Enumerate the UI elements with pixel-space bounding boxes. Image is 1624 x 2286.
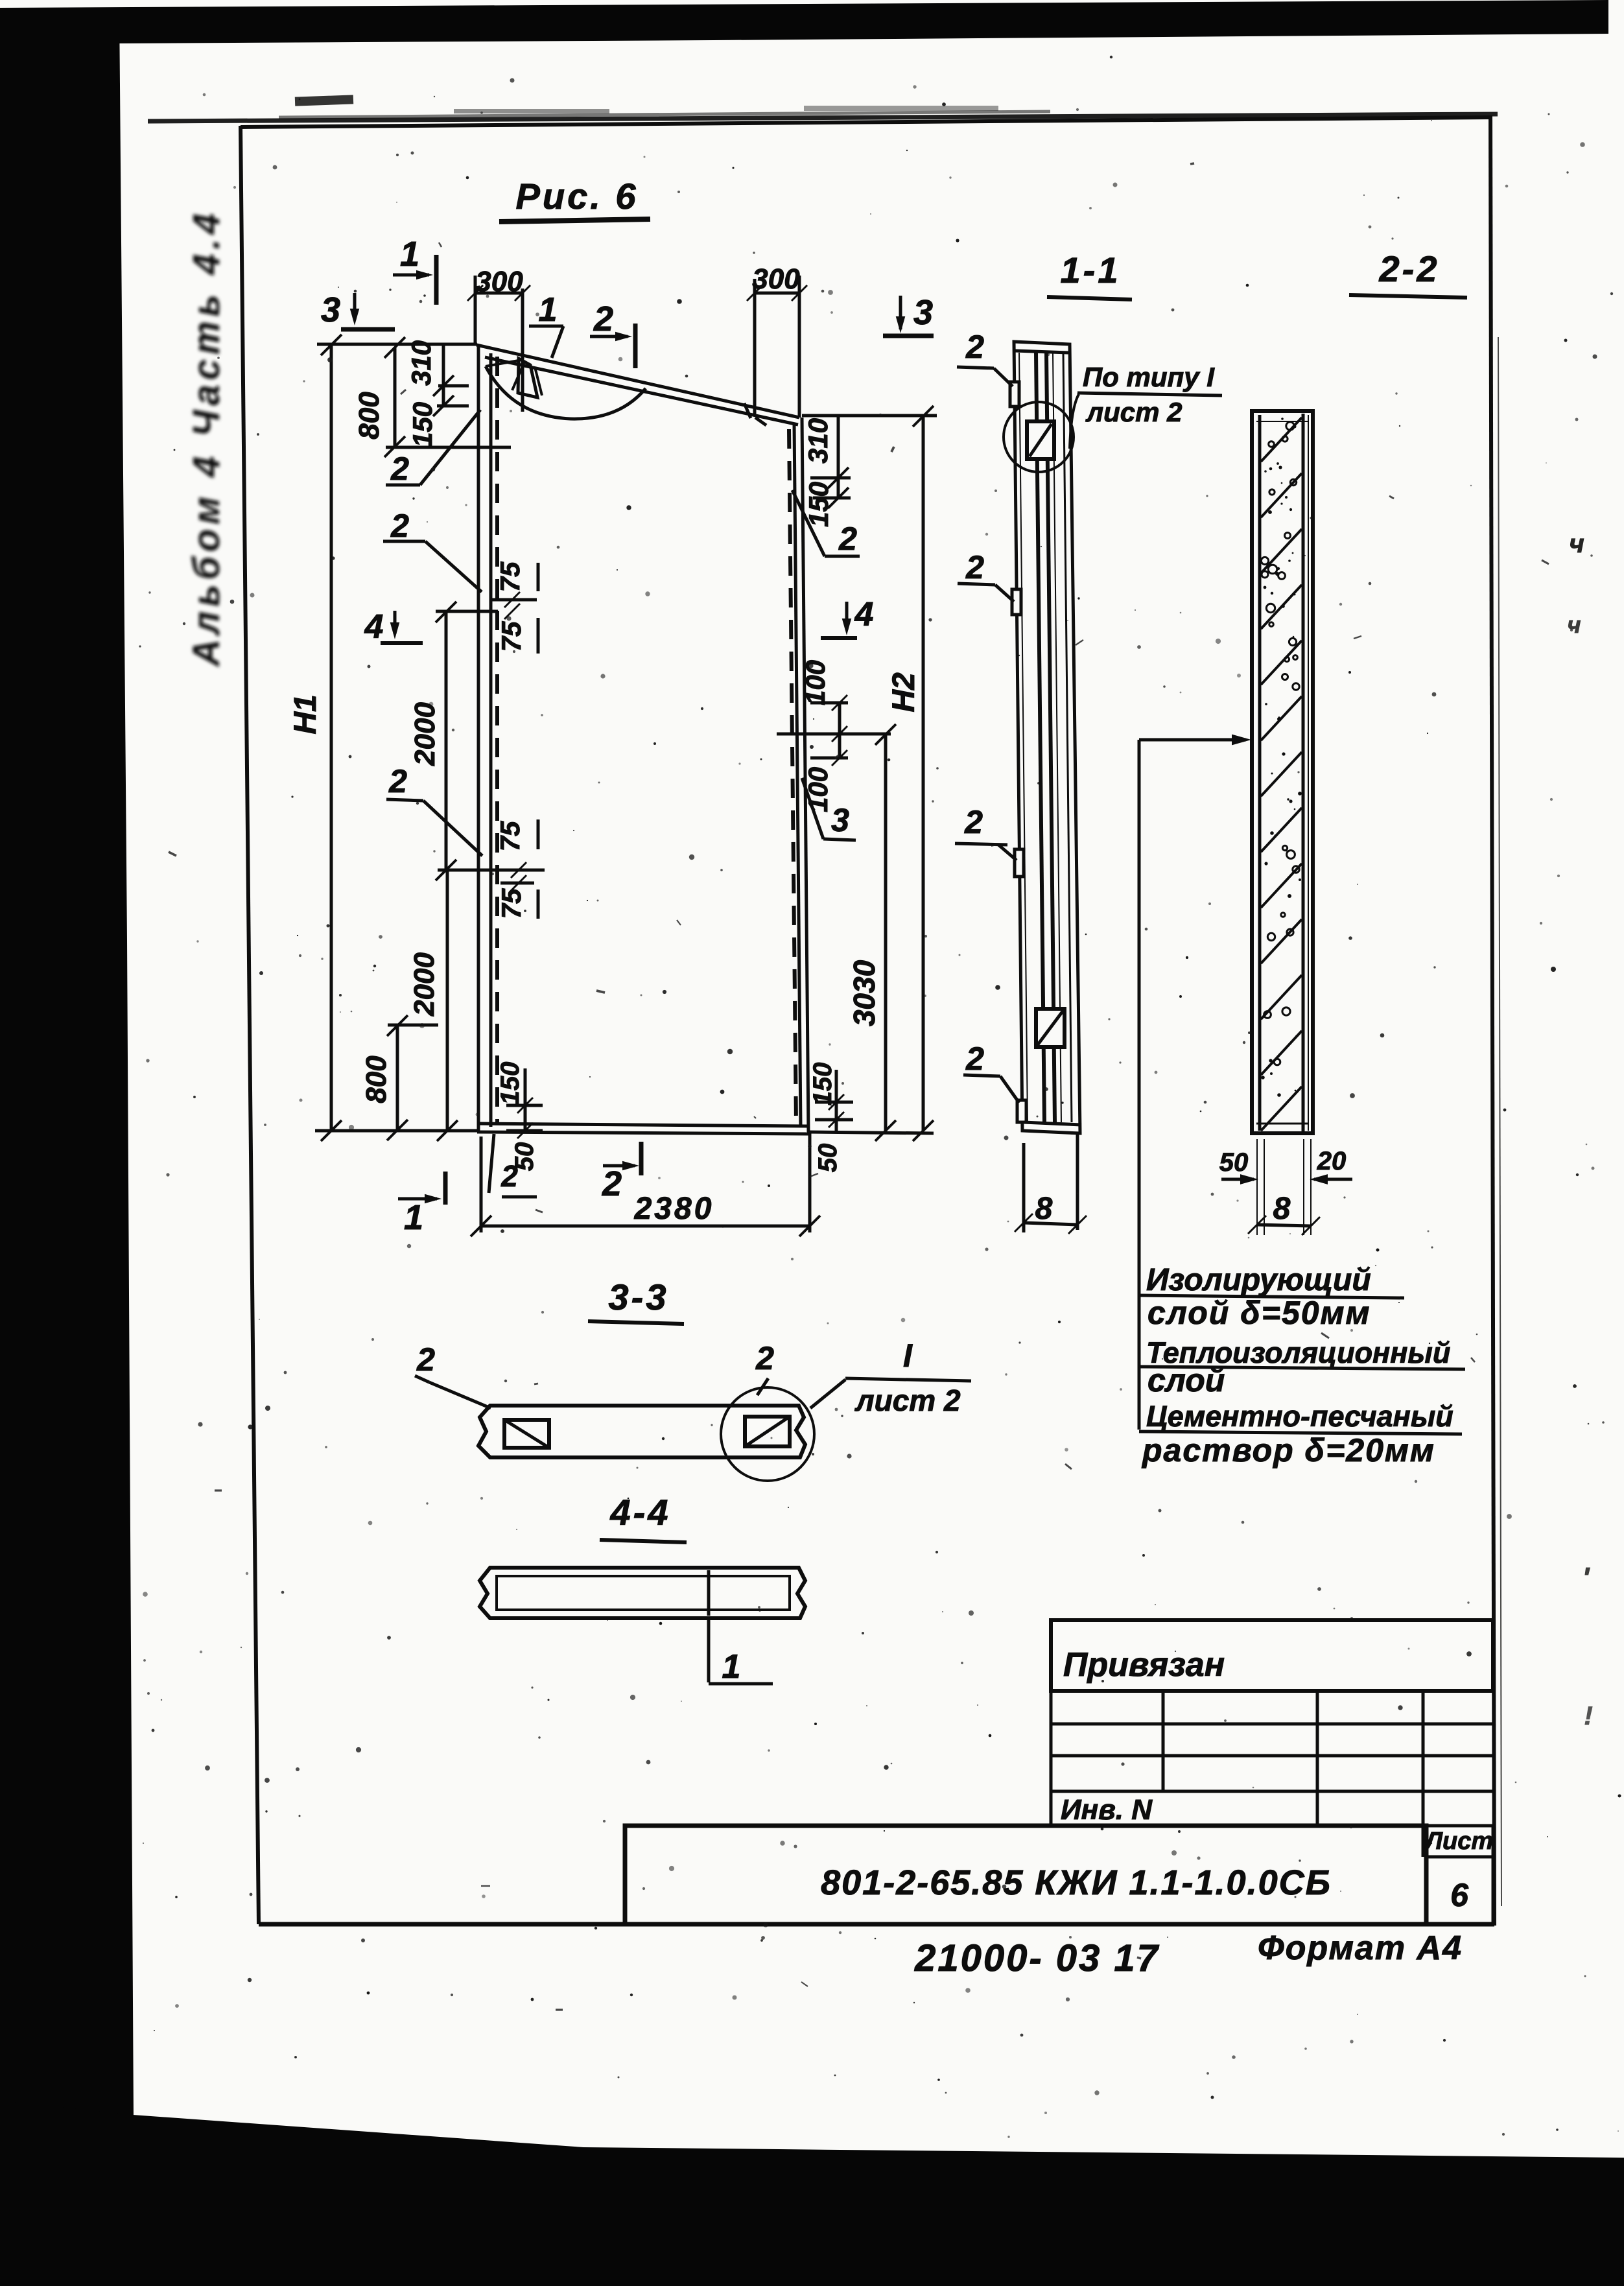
svg-text:Альбом 4 Часть 4.4: Альбом 4 Часть 4.4 — [185, 209, 228, 667]
svg-text:75: 75 — [496, 888, 526, 919]
svg-text:2-2: 2-2 — [1379, 248, 1440, 289]
svg-text:Привязан: Привязан — [1063, 1646, 1225, 1684]
svg-text:75: 75 — [495, 821, 525, 851]
svg-text:ч: ч — [1569, 530, 1584, 558]
svg-text:Н2: Н2 — [887, 672, 921, 713]
svg-text:По типу І: По типу І — [1083, 362, 1215, 392]
svg-text:20: 20 — [1317, 1147, 1347, 1175]
svg-text:75: 75 — [495, 561, 525, 592]
svg-text:801-2-65.85 КЖИ 1.1-1.0.0СБ: 801-2-65.85 КЖИ 1.1-1.0.0СБ — [821, 1863, 1332, 1902]
svg-text:1: 1 — [722, 1648, 741, 1686]
svg-text:2: 2 — [388, 763, 407, 799]
svg-text:ч: ч — [1568, 611, 1581, 638]
svg-text:3: 3 — [831, 802, 849, 838]
svg-text:слой: слой — [1147, 1362, 1225, 1398]
svg-text:Рис. 6: Рис. 6 — [516, 176, 639, 217]
svg-text:50: 50 — [814, 1144, 842, 1173]
svg-text:2: 2 — [838, 521, 857, 557]
svg-text:3-3: 3-3 — [609, 1277, 669, 1317]
svg-text:2: 2 — [602, 1164, 622, 1203]
svg-text:150: 150 — [808, 1063, 837, 1106]
svg-text:Формат А4: Формат А4 — [1258, 1929, 1463, 1967]
svg-text:слой δ=50мм: слой δ=50мм — [1147, 1295, 1371, 1331]
svg-text:2: 2 — [593, 300, 613, 338]
svg-text:1: 1 — [539, 291, 558, 329]
svg-text:2000: 2000 — [408, 952, 440, 1017]
svg-text:Инв. N: Инв. N — [1061, 1794, 1153, 1826]
svg-text:Лист: Лист — [1424, 1828, 1493, 1855]
svg-text:лист 2: лист 2 — [1085, 397, 1183, 427]
svg-text:1-1: 1-1 — [1061, 250, 1121, 290]
svg-text:2: 2 — [416, 1341, 435, 1378]
svg-text:4: 4 — [854, 596, 874, 633]
svg-text:Н1: Н1 — [288, 694, 323, 734]
svg-text:310: 310 — [406, 340, 436, 386]
svg-text:21000- 03 17: 21000- 03 17 — [914, 1937, 1160, 1979]
svg-text:2: 2 — [965, 549, 984, 585]
svg-text:150: 150 — [407, 402, 438, 447]
svg-text:!: ! — [1584, 1702, 1592, 1730]
svg-text:800: 800 — [353, 392, 385, 440]
svg-text:800: 800 — [360, 1055, 392, 1103]
svg-text:2: 2 — [390, 451, 409, 487]
svg-text:6: 6 — [1450, 1877, 1469, 1913]
svg-text:310: 310 — [803, 418, 833, 464]
svg-text:2: 2 — [500, 1159, 518, 1193]
svg-text:50: 50 — [1219, 1148, 1249, 1177]
svg-text:Цементно-песчаный: Цементно-песчаный — [1146, 1400, 1453, 1433]
svg-text:2: 2 — [965, 329, 984, 365]
svg-text:2: 2 — [755, 1340, 774, 1376]
svg-text:І: І — [903, 1337, 913, 1374]
svg-text:2380: 2380 — [634, 1192, 714, 1226]
svg-text:3: 3 — [321, 290, 340, 329]
svg-text:3: 3 — [913, 293, 933, 332]
svg-text:2: 2 — [965, 1041, 984, 1077]
svg-text:Изолирующий: Изолирующий — [1146, 1263, 1371, 1297]
svg-text:лист 2: лист 2 — [854, 1384, 961, 1417]
svg-text:4-4: 4-4 — [610, 1492, 671, 1533]
svg-text:1: 1 — [404, 1198, 423, 1237]
svg-text:100: 100 — [800, 660, 830, 705]
svg-text:8: 8 — [1035, 1192, 1053, 1226]
svg-text:4: 4 — [364, 608, 384, 646]
svg-text:300: 300 — [752, 263, 800, 295]
svg-text:1: 1 — [400, 235, 419, 274]
svg-text:8: 8 — [1273, 1192, 1291, 1226]
svg-text:150: 150 — [496, 1062, 524, 1105]
svg-text:': ' — [1583, 1562, 1590, 1594]
svg-text:2: 2 — [964, 804, 983, 840]
svg-text:2000: 2000 — [409, 702, 441, 766]
svg-text:2: 2 — [390, 508, 409, 544]
svg-text:3030: 3030 — [847, 960, 881, 1026]
svg-text:75: 75 — [496, 621, 526, 652]
svg-text:раствор δ=20мм: раствор δ=20мм — [1141, 1432, 1435, 1468]
